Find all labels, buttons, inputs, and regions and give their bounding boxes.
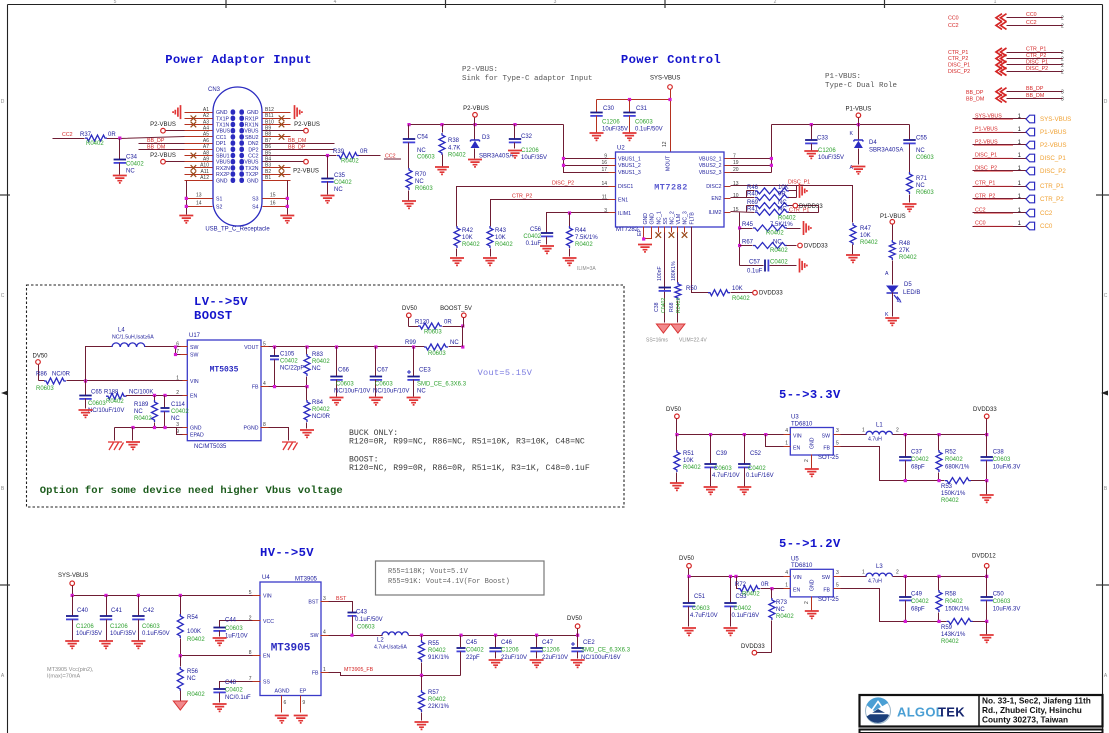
wire A12 to ground — [187, 180, 213, 182]
svg-text:CTR_P1: CTR_P1 — [975, 180, 995, 186]
svg-text:NC: NC — [450, 340, 459, 346]
svg-text:12: 12 — [662, 141, 668, 147]
svg-text:R37: R37 — [80, 132, 92, 138]
svg-text:R59: R59 — [941, 625, 953, 631]
CN3 pin B4 wire — [263, 161, 291, 163]
wire A7 BB_DM — [139, 149, 185, 151]
power flag P2-VBUS at B9 — [263, 130, 305, 132]
svg-text:TEK: TEK — [938, 705, 965, 720]
svg-text:DISC_P1: DISC_P1 — [1026, 59, 1048, 65]
svg-text:NC/MT5035: NC/MT5035 — [194, 444, 227, 450]
svg-text:C45: C45 — [466, 640, 478, 646]
svg-text:B10: B10 — [265, 119, 274, 125]
U4 pin FB right — [321, 672, 329, 674]
svg-text:DN2: DN2 — [248, 141, 258, 147]
svg-text:VBUS1_3: VBUS1_3 — [618, 170, 641, 176]
svg-text:B12: B12 — [265, 107, 274, 113]
wire DISC2 DISC_P1 — [731, 186, 853, 223]
svg-text:C1206: C1206 — [110, 624, 128, 630]
svg-text:R55=118K; Vout=5.1V: R55=118K; Vout=5.1V — [388, 568, 469, 576]
svg-text:SW: SW — [190, 353, 198, 359]
svg-text:A1: A1 — [203, 107, 209, 113]
svg-text:EN: EN — [190, 393, 197, 399]
svg-text:C0603: C0603 — [142, 624, 160, 630]
wire SS to C48 — [220, 682, 253, 689]
svg-text:R42: R42 — [462, 228, 474, 234]
svg-text:R0402: R0402 — [86, 141, 104, 147]
svg-text:RX2N: RX2N — [216, 166, 230, 172]
svg-text:10uF/35V: 10uF/35V — [76, 631, 102, 637]
ground mid — [126, 442, 140, 449]
resistor R71 — [907, 172, 913, 194]
svg-text:EN: EN — [793, 587, 800, 593]
inductor L1 — [841, 434, 867, 436]
svg-text:R0402: R0402 — [448, 153, 466, 159]
svg-text:BOOST_5V: BOOST_5V — [440, 306, 472, 312]
resistor R45 7.5K — [740, 228, 753, 230]
svg-text:R0402: R0402 — [341, 159, 359, 165]
capacitor C67 — [375, 347, 377, 377]
svg-text:Type-C Dual Role: Type-C Dual Role — [825, 82, 897, 90]
svg-text:SS: SS — [663, 217, 669, 224]
wire L1 to DVDD33 — [893, 434, 987, 436]
svg-text:P2-VBUS: P2-VBUS — [150, 153, 176, 159]
svg-text:Power Adaptor Input: Power Adaptor Input — [165, 53, 312, 67]
capacitor C105 — [274, 347, 276, 357]
svg-text:GND: GND — [643, 213, 649, 225]
svg-text:2: 2 — [1061, 70, 1064, 76]
CN3 pin A4 wire — [185, 130, 213, 132]
svg-text:VLM: VLM — [676, 214, 682, 225]
svg-text:R99: R99 — [405, 340, 417, 346]
capacitor C51 — [688, 577, 690, 603]
svg-text:C55: C55 — [916, 136, 928, 142]
svg-text:P1-VBUS:: P1-VBUS: — [825, 73, 861, 81]
svg-text:GND: GND — [650, 213, 656, 225]
wire VOUT rail — [269, 346, 425, 348]
ground under C39 — [704, 487, 718, 494]
wire EN HV — [181, 655, 253, 657]
svg-text:0R: 0R — [761, 582, 769, 588]
svg-text:16: 16 — [270, 201, 276, 207]
svg-text:ILIM1: ILIM1 — [618, 211, 631, 217]
resistor R189 NC — [154, 396, 156, 401]
svg-text:A11: A11 — [200, 169, 209, 175]
svg-text:FB: FB — [823, 587, 830, 593]
svg-text:R53: R53 — [941, 484, 953, 490]
svg-text:R0402: R0402 — [187, 637, 205, 643]
svg-text:22uF/10V: 22uF/10V — [501, 655, 527, 661]
CN3 pin A5 wire — [185, 136, 213, 138]
svg-text:R40: R40 — [747, 192, 759, 198]
svg-text:U17: U17 — [189, 333, 201, 339]
capacitor C38 100nF — [659, 287, 671, 289]
svg-text:GND: GND — [810, 437, 816, 449]
wire EN tie — [766, 435, 784, 447]
U2 pin VBUS2_1 — [725, 158, 731, 160]
svg-text:DVDD33: DVDD33 — [759, 291, 783, 297]
svg-text:C0402: C0402 — [126, 162, 144, 168]
svg-text:4: 4 — [323, 630, 326, 636]
svg-text:2: 2 — [1061, 57, 1064, 63]
diode D3 SBR3A40SA — [474, 125, 476, 141]
U17 pin GND — [181, 427, 188, 429]
svg-text:NC/1.5uH,Isat≥6A: NC/1.5uH,Isat≥6A — [112, 335, 154, 341]
svg-text:R0603: R0603 — [428, 351, 446, 357]
svg-text:22uF/10V: 22uF/10V — [542, 655, 568, 661]
svg-text:DVDD33: DVDD33 — [741, 644, 765, 650]
no-connect X on A3 — [191, 122, 197, 128]
svg-text:R0402: R0402 — [732, 296, 750, 302]
svg-text:1: 1 — [785, 441, 788, 447]
svg-text:143K/1%: 143K/1% — [941, 632, 966, 638]
svg-text:0.1uF/50V: 0.1uF/50V — [142, 631, 170, 637]
ground under D5 — [885, 318, 899, 325]
U2 pin EN2 — [725, 198, 731, 200]
svg-text:MT3905: MT3905 — [295, 577, 318, 583]
svg-text:2: 2 — [804, 459, 810, 462]
svg-text:C0603: C0603 — [336, 382, 354, 388]
svg-text:4.7uF/10V: 4.7uF/10V — [712, 473, 740, 479]
svg-text:CTR_P2: CTR_P2 — [1026, 53, 1046, 59]
svg-text:MT3905 Vcc(pin2),: MT3905 Vcc(pin2), — [47, 667, 94, 673]
svg-text:DISC_P2: DISC_P2 — [975, 165, 997, 171]
svg-text:S4: S4 — [252, 204, 258, 210]
svg-text:GND: GND — [247, 178, 259, 184]
ground under C47 — [530, 660, 544, 667]
CN3 pad row 10 — [231, 165, 236, 170]
svg-text:C105: C105 — [280, 352, 295, 358]
svg-text:A10: A10 — [200, 163, 209, 169]
svg-text:C57: C57 — [749, 260, 761, 266]
svg-text:BB_DP: BB_DP — [966, 90, 984, 96]
wire PGND — [269, 428, 289, 441]
svg-text:13: 13 — [196, 193, 202, 199]
ground under C46 — [489, 660, 503, 667]
svg-text:DISC_P1: DISC_P1 — [975, 152, 997, 158]
svg-text:S1: S1 — [216, 196, 222, 202]
CN3 pin A1 wire — [185, 112, 213, 114]
wire to C30 C31 — [597, 99, 671, 101]
svg-text:R0402: R0402 — [134, 416, 152, 422]
dashed option box — [27, 285, 625, 507]
no-connect X on A2 — [191, 116, 197, 122]
svg-text:27K: 27K — [899, 248, 910, 254]
ground at B12 — [295, 105, 302, 119]
capacitor C56 0.1uF — [541, 232, 553, 234]
svg-text:0.1uF: 0.1uF — [747, 269, 763, 275]
svg-text:2: 2 — [1061, 63, 1064, 69]
inductor L2 — [382, 632, 408, 635]
svg-text:3: 3 — [1061, 96, 1064, 102]
svg-text:VBUS: VBUS — [216, 129, 231, 135]
inductor L4 — [112, 343, 145, 347]
capacitor C54 — [408, 125, 410, 139]
svg-text:R58: R58 — [945, 592, 957, 598]
svg-text:NC/10uF/10V: NC/10uF/10V — [373, 389, 409, 395]
svg-text:DVDD33: DVDD33 — [973, 407, 997, 413]
power flag P2-VBUS — [473, 113, 478, 118]
CN3 pin B8 wire — [263, 136, 291, 138]
svg-text:C50: C50 — [993, 592, 1005, 598]
U2 pin VBUS1_1 — [609, 158, 616, 160]
wire B5 CC2 net — [263, 155, 337, 157]
svg-text:5-->1.2V: 5-->1.2V — [779, 537, 841, 551]
svg-text:SMD_CE_6.3X6.3: SMD_CE_6.3X6.3 — [581, 648, 631, 654]
CN3 pin A7 wire — [185, 149, 213, 151]
svg-text:NC_2: NC_2 — [669, 211, 675, 224]
svg-text:GND: GND — [216, 110, 228, 116]
svg-text:10uF/35V: 10uF/35V — [110, 631, 136, 637]
capacitor C48 — [213, 688, 225, 690]
ground under C33 — [804, 151, 818, 158]
svg-text:R0402: R0402 — [899, 255, 917, 261]
svg-text:C38: C38 — [993, 450, 1005, 456]
svg-text:NC: NC — [187, 676, 196, 682]
resistor R51 10K — [676, 435, 678, 451]
svg-text:C0402: C0402 — [225, 688, 243, 694]
svg-text:R120=NC, R99=0R, R86=0R, R51=1: R120=NC, R99=0R, R86=0R, R51=1K, R3=1K, … — [349, 464, 590, 473]
svg-text:C0402: C0402 — [748, 466, 766, 472]
resistor R48 27K — [889, 240, 895, 260]
svg-text:C47: C47 — [542, 640, 554, 646]
svg-text:VBUS2_1: VBUS2_1 — [699, 156, 722, 162]
svg-text:4: 4 — [263, 381, 266, 387]
svg-text:R0402: R0402 — [945, 457, 963, 463]
wire B6 BB_DP — [263, 149, 335, 151]
svg-text:C0402: C0402 — [661, 298, 667, 313]
svg-text:SBU2: SBU2 — [245, 135, 259, 141]
svg-text:DISC_P2: DISC_P2 — [948, 69, 970, 75]
wire P2-VBUS bus — [409, 124, 564, 126]
svg-text:B2: B2 — [265, 169, 271, 175]
svg-text:VLIM=22.4V: VLIM=22.4V — [679, 338, 707, 344]
svg-text:Vout=5.15V: Vout=5.15V — [478, 368, 533, 378]
svg-text:3: 3 — [836, 570, 839, 576]
svg-text:5: 5 — [836, 582, 839, 588]
svg-text:АLGOL: АLGOL — [897, 705, 944, 720]
U4 pin VCC — [253, 620, 261, 622]
svg-text:TX2N: TX2N — [245, 166, 259, 172]
CN3 pad row 4 — [231, 128, 236, 133]
wire B1 to ground — [263, 180, 288, 182]
svg-text:D4: D4 — [869, 140, 877, 146]
svg-text:P2-VBUS: P2-VBUS — [463, 106, 489, 112]
svg-text:DISC1: DISC1 — [618, 184, 633, 190]
svg-text:A3: A3 — [203, 119, 209, 125]
ground under R38 — [435, 167, 449, 174]
CN3 pad row 1 — [231, 109, 236, 114]
svg-text:R51: R51 — [683, 451, 695, 457]
svg-text:2: 2 — [1061, 50, 1064, 56]
svg-text:1: 1 — [862, 428, 865, 434]
ground under R51 — [670, 483, 684, 490]
wire FB loop 33 — [841, 447, 945, 481]
svg-text:C43: C43 — [356, 610, 368, 616]
svg-text:Power Control: Power Control — [621, 53, 721, 67]
svg-text:SS: SS — [263, 679, 270, 685]
svg-text:2: 2 — [1061, 23, 1064, 29]
svg-text:NC: NC — [778, 206, 787, 212]
svg-text:CC0: CC0 — [948, 16, 959, 22]
capacitor C34 — [119, 139, 121, 160]
ground under CE3 — [407, 398, 421, 405]
CN3 pin B12 wire — [263, 112, 291, 114]
capacitor C66 — [336, 347, 338, 377]
port DISC_P2 — [973, 170, 1027, 172]
svg-text:NC: NC — [773, 240, 782, 246]
svg-text:DISC2: DISC2 — [706, 184, 721, 190]
svg-text:DP1: DP1 — [216, 141, 226, 147]
svg-text:R120: R120 — [415, 320, 430, 326]
svg-text:NC: NC — [134, 409, 143, 415]
svg-text:C1206: C1206 — [501, 648, 519, 654]
svg-text:10uF/35V: 10uF/35V — [602, 127, 628, 133]
resistor R54 100K — [180, 596, 182, 615]
svg-text:R46: R46 — [747, 185, 759, 191]
note box R55 — [376, 561, 545, 595]
svg-text:C0603: C0603 — [692, 606, 710, 612]
svg-text:NC: NC — [415, 179, 424, 185]
ground under R70 — [402, 201, 416, 208]
resistor R37 0R — [85, 135, 107, 141]
svg-text:10: 10 — [733, 193, 739, 199]
svg-text:R69: R69 — [747, 200, 759, 206]
U4 pin SS — [253, 681, 261, 683]
svg-text:R0402: R0402 — [776, 614, 794, 620]
svg-text:10uF/35V: 10uF/35V — [521, 155, 547, 161]
svg-text:0R: 0R — [360, 149, 368, 155]
port SYS-VBUS — [973, 118, 1027, 120]
U4 pin BST right — [321, 601, 329, 603]
svg-text:USB_TP_C_Receptacle: USB_TP_C_Receptacle — [205, 227, 270, 233]
svg-text:A6: A6 — [203, 138, 209, 144]
capacitor C50 out — [986, 577, 988, 597]
svg-text:VIN: VIN — [263, 593, 272, 599]
svg-text:GND: GND — [247, 110, 259, 116]
svg-text:CE2: CE2 — [583, 640, 595, 646]
svg-text:CTR_P2: CTR_P2 — [975, 193, 995, 199]
svg-text:U5: U5 — [791, 556, 799, 562]
svg-text:D: D — [1104, 99, 1108, 105]
svg-text:R67: R67 — [742, 240, 754, 246]
resistor R72 0R — [737, 577, 739, 589]
U2 pin VBUS1_2 — [609, 165, 616, 167]
CN3 pin B10 wire — [263, 124, 291, 126]
svg-text:C0603: C0603 — [993, 599, 1011, 605]
svg-text:A8: A8 — [203, 150, 209, 156]
svg-text:3: 3 — [1061, 90, 1064, 96]
svg-text:No. 33-1, Sec2, Jiafeng 11th: No. 33-1, Sec2, Jiafeng 11th — [982, 696, 1091, 706]
CN3 pad row 9 — [231, 159, 236, 164]
svg-text:EN2: EN2 — [711, 196, 721, 202]
svg-text:7.5K/1%: 7.5K/1% — [575, 235, 598, 241]
ground under C31 — [623, 133, 637, 140]
port CC2 — [973, 212, 1027, 214]
svg-text:R71: R71 — [916, 176, 928, 182]
wire A6 BB_DP — [139, 143, 185, 145]
CN3 pin A3 wire — [185, 124, 213, 126]
svg-text:C67: C67 — [377, 368, 389, 374]
svg-text:DISC_P2: DISC_P2 — [1040, 168, 1066, 175]
svg-text:VIN: VIN — [793, 433, 802, 439]
capacitor C47 — [536, 636, 538, 649]
svg-text:NC: NC — [334, 187, 343, 193]
capacitor C32 — [514, 125, 516, 139]
svg-text:C0603: C0603 — [88, 401, 106, 407]
svg-text:22pF: 22pF — [466, 655, 480, 661]
wire B7 BB_DM — [263, 143, 335, 145]
U17 pin VOUT right — [261, 346, 269, 348]
power flag DVDD33 R67 — [798, 243, 803, 248]
svg-text:VBUS2_3: VBUS2_3 — [699, 170, 722, 176]
CN3 pin B11 wire — [263, 118, 291, 120]
capacitor C35 — [327, 156, 329, 179]
CN3 pad row 8 — [231, 153, 236, 158]
svg-text:5: 5 — [263, 342, 266, 348]
svg-text:EP: EP — [299, 689, 306, 695]
svg-text:680K/1%: 680K/1% — [945, 465, 970, 471]
svg-text:TD6810: TD6810 — [791, 563, 813, 569]
resistor R43 10K — [487, 226, 493, 248]
ground at A1 — [173, 105, 180, 119]
LED D5 — [886, 286, 899, 294]
svg-text:DISC_P1: DISC_P1 — [1040, 155, 1066, 162]
svg-text:C0402: C0402 — [523, 234, 541, 240]
svg-text:CTR_P1: CTR_P1 — [1026, 46, 1046, 52]
svg-text:SYS-VBUS: SYS-VBUS — [1040, 116, 1071, 123]
svg-text:SBU1: SBU1 — [216, 154, 230, 160]
svg-text:C38: C38 — [654, 302, 660, 312]
ground under EP — [294, 716, 308, 723]
junction — [326, 154, 329, 157]
capacitor C53 — [730, 577, 732, 603]
svg-text:R70: R70 — [415, 172, 427, 178]
diode D4 SBR3A40SA — [858, 125, 860, 141]
svg-text:DN1: DN1 — [216, 147, 226, 153]
svg-text:CTR_P2: CTR_P2 — [1040, 196, 1064, 203]
svg-text:BST: BST — [308, 600, 319, 606]
svg-text:2: 2 — [804, 601, 810, 604]
U5 pins — [784, 576, 791, 578]
svg-text:3: 3 — [323, 596, 326, 602]
svg-text:0R: 0R — [108, 132, 116, 138]
no-connect X on B side row 4 — [279, 134, 285, 140]
wire P1-VBUS bus — [772, 124, 910, 126]
power flag DVDD33 — [753, 290, 758, 295]
ground under C50 out — [986, 622, 988, 635]
svg-text:C0402: C0402 — [171, 409, 189, 415]
svg-text:EPAD: EPAD — [190, 433, 204, 439]
svg-text:SOT-25: SOT-25 — [818, 597, 839, 603]
wire FB net — [269, 386, 307, 388]
svg-text:ILIM=3A: ILIM=3A — [577, 266, 596, 272]
U2 pin EN1 — [609, 199, 616, 201]
svg-text:FLTB: FLTB — [689, 212, 695, 225]
svg-text:0.1uF/16V: 0.1uF/16V — [732, 613, 760, 619]
svg-text:A7: A7 — [203, 144, 209, 150]
ground under C34 — [113, 176, 127, 183]
ground under C32 — [508, 151, 522, 158]
op-amp U2 MT7282 body — [616, 152, 725, 227]
svg-text:NC_1: NC_1 — [656, 211, 662, 224]
svg-text:R54: R54 — [187, 615, 199, 621]
svg-text:C: C — [1104, 293, 1108, 299]
CN3 pin B7 wire — [263, 143, 291, 145]
svg-text:P1-VBUS: P1-VBUS — [846, 107, 872, 113]
svg-text:C0603: C0603 — [635, 120, 653, 126]
svg-text:68pF: 68pF — [911, 465, 925, 471]
